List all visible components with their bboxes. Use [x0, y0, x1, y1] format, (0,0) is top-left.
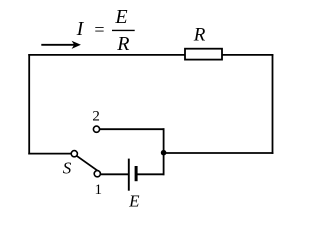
battery E: long plate	[128, 159, 130, 191]
contact 2 (open circle)	[93, 126, 99, 132]
svg-text:I: I	[76, 18, 85, 40]
battery E: short plate	[135, 166, 138, 181]
svg-text:E: E	[114, 6, 127, 28]
resistor R (box)	[185, 49, 222, 60]
contact 1 (open circle)	[94, 171, 100, 177]
svg-text:R: R	[193, 25, 206, 46]
svg-text:R: R	[116, 33, 129, 55]
svg-text:1: 1	[94, 182, 102, 198]
formula I = E/R	[76, 6, 135, 55]
wire: bottom-right horizontal from junction node to right corner	[164, 152, 274, 154]
wire: contact 1 to battery	[100, 173, 128, 175]
current arrow	[41, 41, 81, 49]
svg-text:S: S	[63, 159, 72, 178]
wire: left vertical side	[28, 54, 30, 155]
svg-text:=: =	[94, 19, 104, 39]
switch S pivot contact (open circle)	[71, 151, 77, 157]
wire: right vertical side	[272, 54, 274, 153]
switch blade (pivot to contact 1)	[77, 156, 101, 173]
svg-text:2: 2	[92, 109, 100, 125]
wire: contact 2 to middle vertical	[100, 128, 165, 130]
junction node (filled dot)	[161, 150, 167, 156]
wire: battery to middle vertical	[136, 173, 164, 175]
svg-text:E: E	[128, 192, 140, 211]
wire: bottom-left horizontal from left corner to switch pivot	[28, 153, 71, 155]
wire: middle vertical (contact-2 branch down through junction to battery branch)	[163, 128, 165, 175]
wire: top-right horizontal from resistor to right corner	[221, 54, 273, 56]
wire: top-left horizontal from left corner to resistor	[28, 54, 186, 56]
